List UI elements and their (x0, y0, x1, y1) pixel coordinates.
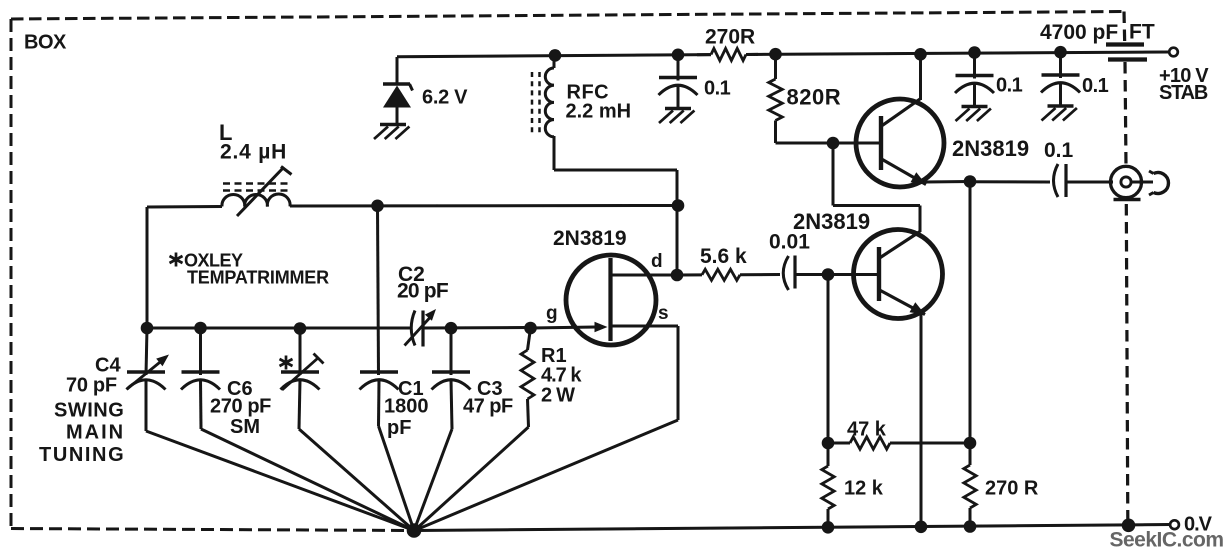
label 5.6 k (700, 245, 747, 268)
svg-text:47 k: 47 k (847, 419, 887, 441)
svg-text:g: g (546, 303, 558, 324)
svg-text:0.1: 0.1 (996, 75, 1023, 97)
wire bypass cap2 bottom lead (973, 83, 976, 106)
wire drain column (676, 206, 679, 276)
ground below bypass cap1 (659, 109, 694, 124)
resistor 270R (top rail) (697, 49, 758, 61)
svg-text:TUNING: TUNING (39, 444, 125, 466)
transistor Q3 2N3819 body circle (854, 230, 943, 319)
label 2N3819 (U1) (553, 227, 627, 250)
svg-text:270R: 270R (705, 26, 755, 49)
wire source down (677, 326, 680, 420)
wire Q3 base column down (827, 275, 830, 444)
capacitor C2 20pF plates (411, 311, 423, 347)
node junction rail/C bypass3 (1054, 46, 1067, 59)
svg-text:1800: 1800 (384, 396, 429, 418)
wire RFC bottom lead (553, 136, 556, 170)
label C4 (95, 355, 121, 377)
label FT (1129, 21, 1155, 44)
capacitor 0.1 bypass #3 (1041, 75, 1080, 93)
svg-text:2.4 µH: 2.4 µH (220, 141, 287, 164)
label 0.1 (bypass #2) (996, 75, 1023, 97)
wire tank left vertical (146, 207, 149, 328)
label 270R (705, 26, 755, 49)
wire 820R top lead (774, 54, 777, 79)
wire C1 to star ground (379, 426, 415, 531)
svg-text:4.7 k: 4.7 k (541, 365, 582, 387)
enclosure box dashed border (left edge) (10, 19, 13, 529)
wire 820R bottom lead (774, 121, 777, 144)
capacitor 0.1 bypass #1 (659, 78, 698, 96)
label 270R (bias) (985, 478, 1039, 500)
capacitor C4 70pF variable plates (127, 372, 166, 390)
label 47 pF (463, 396, 513, 418)
label 2N3819 (Q2) (952, 136, 1029, 161)
node junction rail/RFC top (549, 49, 562, 62)
label 12 k (844, 478, 884, 500)
svg-text:SWING: SWING (54, 400, 124, 422)
svg-text:C4: C4 (95, 355, 121, 377)
label C3 (477, 378, 503, 400)
coax connector center pin (1121, 177, 1131, 187)
node junction rail/820R (769, 48, 782, 61)
wire C4 bottom lead (145, 380, 148, 431)
label SM (230, 416, 260, 438)
node junction 47k/270R (964, 437, 977, 450)
pin label d (651, 251, 663, 272)
zener diode D1 6.2V cathode bar (383, 84, 413, 91)
capacitor C3 47pF plates (432, 372, 471, 390)
transistor Q3 emitter stroke (880, 290, 926, 315)
wire Q3 collector across to bias node (833, 204, 920, 207)
wire C1 column (tank top down to C1, crosses gate bus) (378, 206, 379, 375)
wire top supply rail (270R to feedthrough/+10V terminal) (746, 52, 1169, 55)
star ground node (407, 523, 422, 538)
label 0.1 (series output) (1044, 139, 1074, 162)
enclosure box dashed border (right wall mid segment) (1125, 62, 1126, 166)
label +10 V (1159, 65, 1209, 87)
node junction tank top / RFC feed / drain column (672, 199, 685, 212)
label BOX (24, 32, 67, 54)
wire R1 bottom lead (528, 399, 529, 427)
wire tank top (left segment) (147, 205, 222, 209)
wire coax pin to plug (1132, 181, 1154, 184)
enclosure box dashed border (top edge) (11, 12, 1124, 20)
wire trimmer bottom lead (299, 380, 300, 429)
node junction tank top / C1 column (371, 200, 384, 213)
transistor Q2 2N3819 body circle (856, 99, 944, 187)
wire 12k top lead (827, 443, 830, 466)
wire C3 to star ground (414, 429, 452, 531)
resistor 270R (bias) (964, 465, 976, 508)
svg-text:pF: pF (387, 417, 411, 439)
label 20 pF (397, 280, 449, 303)
wire tank top (right segment) (290, 204, 678, 208)
transistor U1 gate arrow (595, 322, 608, 332)
wire R1 to star ground (415, 427, 529, 531)
label L (219, 120, 232, 145)
wire zener bottom lead (396, 106, 399, 124)
svg-text:2N3819: 2N3819 (952, 136, 1029, 161)
inductor L adjuster slash (237, 167, 292, 217)
label 2 W (541, 385, 575, 407)
wire 5.6k to 0.01 cap (740, 273, 780, 276)
wire 47k left lead (828, 442, 850, 445)
svg-text:2N3819: 2N3819 (553, 227, 627, 250)
svg-text:TEMPATRIMMER: TEMPATRIMMER (187, 268, 329, 288)
node junction Q3 base / bias divider (822, 268, 835, 281)
node junction bus/C4 (141, 322, 154, 335)
transistor U1 2N3819 body circle (566, 255, 656, 345)
wire gate bus (left of C2) (147, 327, 412, 330)
zener diode D1 6.2V anode triangle (383, 86, 411, 108)
svg-text:70 pF: 70 pF (66, 375, 117, 397)
inductor RFC 2.2mH coil (545, 68, 554, 137)
wire source to star ground (415, 420, 679, 531)
svg-text:SeekIC.com: SeekIC.com (1110, 529, 1224, 552)
wire bypass cap2 top lead (973, 53, 976, 79)
trimmer capacitor plates (281, 372, 320, 390)
label pF (C1) (387, 417, 411, 439)
terminal +10V STAB (open circle) (1169, 48, 1178, 57)
wire RFC top lead (553, 55, 556, 68)
transistor U1 channel bar (608, 258, 612, 341)
wire R1 top lead (528, 328, 531, 350)
label RFC (567, 82, 610, 104)
label SWING (54, 400, 124, 422)
svg-text:12 k: 12 k (844, 478, 884, 500)
svg-text:STAB: STAB (1159, 82, 1208, 104)
node junction 47k/12k (822, 437, 835, 450)
node junction 0V/270R (964, 520, 977, 533)
svg-text:270 R: 270 R (985, 478, 1039, 500)
coax connector outer shell (1111, 166, 1142, 199)
svg-text:2N3819: 2N3819 (793, 209, 870, 234)
wire bypass cap1 bottom lead (677, 85, 680, 108)
label 0.V (1184, 514, 1213, 536)
svg-text:d: d (651, 251, 663, 272)
label 2.2 mH (566, 101, 632, 123)
label C2 (398, 263, 425, 286)
wire output node down to 270R (969, 182, 972, 444)
resistor R1 4.7k 2W (521, 350, 534, 399)
wire RFC to drain column (vertical) (676, 170, 679, 206)
wire bus right of C2 (423, 326, 531, 330)
svg-text:2 W: 2 W (541, 385, 575, 407)
node junction 0V/Q3 emitter (915, 521, 928, 534)
wire 0V rail (414, 525, 1171, 531)
ground below bypass cap2 (956, 107, 991, 122)
ground below bypass cap3 (1042, 106, 1077, 121)
wire trimmer to star ground (299, 429, 414, 531)
trimmer adjust slash with T-bar (282, 354, 324, 391)
transistor Q2 collector stroke (882, 99, 921, 126)
wire series cap to coax connector (1066, 181, 1113, 184)
svg-text:820R: 820R (787, 85, 842, 110)
capacitor C6 270pF plates (181, 372, 220, 390)
svg-text:2.2 mH: 2.2 mH (566, 101, 632, 123)
transistor Q2 emitter stroke (882, 159, 927, 185)
wire zener top lead (396, 57, 399, 84)
node junction rail/C bypass1 (672, 49, 685, 62)
label 6.2 V (422, 87, 468, 109)
wire trimmer top lead (299, 329, 302, 376)
svg-text:47 pF: 47 pF (463, 396, 513, 418)
label 270 pF (210, 396, 271, 418)
wire output node to series cap (970, 180, 1050, 183)
svg-text:270 pF: 270 pF (210, 396, 271, 418)
capacitor C1 1800pF plates (360, 372, 399, 390)
svg-text:6.2 V: 6.2 V (422, 87, 468, 109)
svg-text:0.1: 0.1 (1082, 75, 1109, 97)
wire bypass cap3 bottom lead (1059, 83, 1062, 106)
wire RFC to drain column (horizontal) (554, 169, 677, 172)
wire Q2 collector to rail (919, 55, 922, 101)
transistor Q3 base bar (877, 247, 881, 301)
node junction bus/R1/gate (524, 322, 537, 335)
label 820R (787, 85, 842, 110)
label 4.7 k (541, 365, 582, 387)
inductor L 2.4uH coil (222, 194, 290, 206)
wire 47k right lead (890, 442, 970, 445)
label 1800 (384, 396, 429, 418)
wire C3 top lead (450, 328, 453, 375)
pin label s (658, 303, 669, 324)
label 0.01 (769, 231, 810, 254)
svg-text:0.1: 0.1 (1044, 139, 1074, 162)
wire 0.01 to Q3 base (795, 273, 879, 276)
wire C1 bottom lead (377, 380, 381, 426)
label C6 (227, 378, 253, 400)
coax mating plug contact (1149, 171, 1168, 195)
svg-text:SM: SM (230, 416, 260, 438)
wire Q2 emitter to output node (924, 180, 970, 184)
label STAB (1159, 82, 1208, 104)
wire Q3 emitter down to 0V rail (920, 313, 923, 527)
label TUNING (39, 444, 125, 466)
label 0.1 (bypass #3) (1082, 75, 1109, 97)
label R1 (541, 345, 567, 367)
wire C4 top lead (146, 328, 147, 375)
svg-text:5.6 k: 5.6 k (700, 245, 747, 268)
label 4700 pF (1040, 21, 1118, 44)
label C1 (398, 378, 424, 400)
capacitor 0.01 coupling (783, 256, 795, 291)
wire Q3 collector up (919, 206, 922, 233)
svg-text:4700 pF: 4700 pF (1040, 21, 1118, 44)
label 47 k (847, 419, 887, 441)
pin label g (546, 303, 558, 324)
terminal 0V (open circle) (1170, 520, 1179, 529)
label 70 pF (66, 375, 117, 397)
wire C6 top lead (199, 328, 202, 375)
wire C6 bottom lead (199, 380, 203, 429)
inductor L dashed core (223, 184, 290, 191)
transistor U1 source stroke (612, 325, 678, 328)
wire 820R to Q2 base (776, 142, 834, 145)
node junction 0V/12k (822, 521, 835, 534)
node junction rail/C bypass2 (968, 46, 981, 59)
capacitor C2 adjust arrow (405, 309, 437, 346)
asterisk mark (OXLEY) (170, 253, 183, 267)
transistor Q2 base bar (879, 116, 883, 170)
transistor Q3 collector stroke (880, 232, 921, 259)
wire C4 to star ground (146, 431, 414, 531)
node junction bus/trimmer (294, 322, 307, 335)
enclosure box dashed border (bottom edge, left of star ground) (11, 529, 414, 531)
label 0.1 (bypass #1) (704, 78, 731, 100)
svg-text:BOX: BOX (24, 32, 67, 54)
wire 270R bottom lead (969, 508, 972, 526)
svg-text:s: s (658, 303, 669, 324)
node junction rail/Q2 collector (914, 48, 927, 61)
resistor 820R (769, 79, 783, 121)
resistor 47k (850, 437, 890, 449)
asterisk mark (trimmer) (280, 356, 293, 370)
wire 270R top lead (969, 443, 972, 465)
enclosure box dashed border (right wall lower segment) (1126, 204, 1128, 519)
node junction Q2 base / bias feed (827, 137, 840, 150)
wire bypass cap1 top lead (677, 55, 680, 81)
wire bias node down from Q2 base junction (832, 143, 835, 206)
transistor U1 drain stroke (612, 274, 677, 277)
label TEMPATRIMMER (187, 268, 329, 288)
wire 12k bottom lead (827, 509, 830, 527)
node junction 0V/box wall (1122, 519, 1136, 533)
node junction Q2 emitter output (964, 175, 977, 188)
node junction drain/5.6k (671, 269, 684, 282)
watermark SeekIC.com (1110, 529, 1224, 552)
node junction bus/C6 (194, 322, 207, 335)
label MAIN (66, 422, 125, 444)
svg-text:20 pF: 20 pF (397, 280, 449, 303)
svg-text:0.1: 0.1 (704, 78, 731, 100)
label OXLEY (184, 251, 243, 271)
capacitor 0.1 series output (1054, 164, 1067, 197)
wire C3 bottom lead (451, 380, 452, 429)
label 2N3819 (Q3) (793, 209, 870, 234)
svg-text:FT: FT (1129, 21, 1155, 44)
resistor 12k (822, 466, 834, 509)
capacitor 0.1 bypass #2 (955, 76, 994, 94)
capacitor 4700pF FT feedthrough plates (1106, 45, 1147, 60)
resistor 5.6k (677, 269, 740, 280)
capacitor C4 adjust arrow (127, 355, 169, 390)
wire bypass cap3 top lead (1059, 52, 1062, 78)
label 2.4 uH (220, 141, 287, 164)
enclosure box dashed border (right wall upper segment) (1122, 12, 1126, 44)
svg-text:MAIN: MAIN (66, 422, 125, 444)
node junction bus/C3 (445, 322, 458, 335)
wire Q2 base lead (833, 142, 881, 145)
ground below zener (374, 125, 409, 140)
wire top supply rail (zener to 270R) (397, 55, 711, 57)
wire gate lead to FET (531, 327, 597, 328)
RFC dashed core lines (532, 72, 540, 136)
wire C6 to star ground (201, 429, 414, 531)
